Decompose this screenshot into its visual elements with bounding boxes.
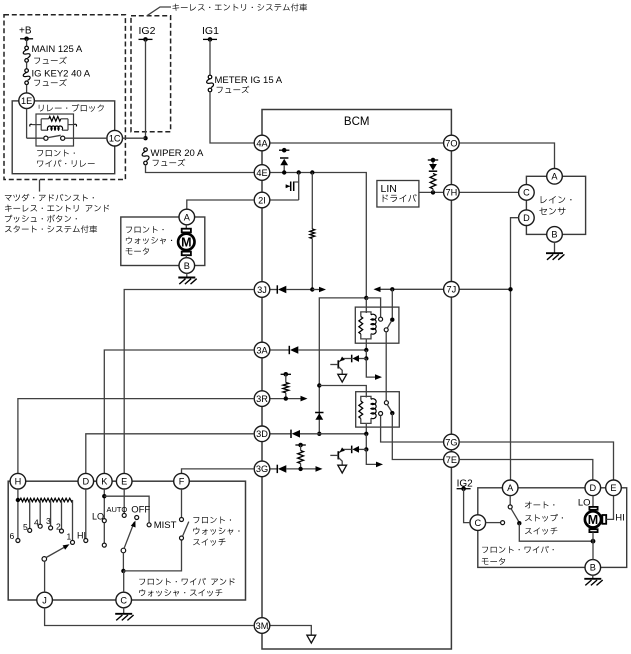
svg-text:WIPER 20 A: WIPER 20 A [151, 148, 204, 159]
svg-text:5: 5 [23, 522, 28, 532]
svg-text:HI: HI [615, 513, 625, 524]
svg-text:7H: 7H [446, 188, 458, 198]
svg-text:C: C [474, 518, 481, 528]
svg-text:3M: 3M [256, 621, 269, 631]
svg-text:AUTO: AUTO [107, 505, 128, 514]
svg-text:M: M [588, 513, 598, 527]
svg-text:1C: 1C [109, 134, 121, 144]
svg-text:A: A [507, 483, 514, 493]
svg-text:2I: 2I [258, 195, 266, 205]
svg-text:F: F [179, 477, 185, 487]
svg-text:H: H [15, 477, 22, 487]
svg-text:E: E [610, 483, 616, 493]
svg-text:7O: 7O [445, 138, 457, 148]
svg-text:K: K [101, 477, 108, 487]
svg-text:MIST: MIST [154, 520, 177, 531]
svg-text:7G: 7G [445, 437, 457, 447]
svg-text:C: C [523, 188, 530, 198]
svg-text:7J: 7J [447, 285, 457, 295]
svg-text:OFF: OFF [131, 505, 150, 516]
svg-text:+B: +B [19, 26, 32, 37]
svg-text:4: 4 [34, 518, 39, 528]
svg-text:METER IG 15 A: METER IG 15 A [215, 75, 283, 86]
svg-text:J: J [42, 595, 47, 605]
svg-text:A: A [551, 172, 558, 182]
svg-text:A: A [184, 212, 191, 222]
svg-text:IG1: IG1 [202, 25, 219, 37]
svg-text:1: 1 [67, 532, 72, 542]
svg-text:3: 3 [46, 516, 51, 526]
svg-text:D: D [589, 483, 596, 493]
svg-text:3D: 3D [256, 429, 268, 439]
svg-text:4E: 4E [256, 168, 267, 178]
svg-text:B: B [184, 261, 190, 271]
svg-text:B: B [551, 230, 557, 240]
svg-text:D: D [523, 213, 530, 223]
svg-text:C: C [120, 595, 127, 605]
svg-text:7E: 7E [446, 455, 457, 465]
svg-text:3A: 3A [256, 345, 268, 355]
svg-text:MAIN 125 A: MAIN 125 A [32, 44, 83, 55]
svg-text:IG KEY2 40 A: IG KEY2 40 A [32, 68, 91, 79]
svg-text:4A: 4A [256, 138, 268, 148]
svg-text:E: E [121, 477, 127, 487]
svg-text:M: M [181, 235, 191, 249]
svg-text:B: B [590, 563, 596, 573]
svg-text:3J: 3J [257, 285, 267, 295]
svg-text:2: 2 [56, 522, 61, 532]
svg-text:3G: 3G [256, 464, 268, 474]
svg-text:IG2: IG2 [139, 25, 156, 37]
svg-text:1E: 1E [21, 96, 32, 106]
svg-text:LO: LO [92, 512, 104, 522]
svg-text:LIN: LIN [381, 183, 397, 195]
svg-text:D: D [82, 477, 89, 487]
svg-text:3R: 3R [256, 394, 268, 404]
svg-text:6: 6 [10, 531, 15, 541]
svg-text:BCM: BCM [344, 116, 370, 128]
svg-text:LO: LO [578, 497, 591, 508]
